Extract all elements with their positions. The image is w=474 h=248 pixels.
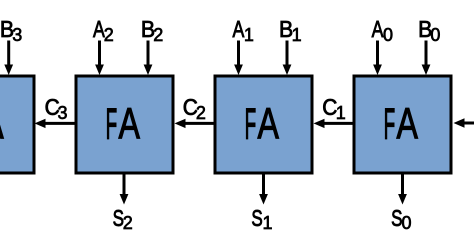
svg-text:A: A [372,17,384,43]
wire B0 input arrow [422,41,431,76]
wire B3 input arrow [4,41,13,76]
svg-text:2: 2 [123,213,133,233]
carry C2 label [183,94,206,123]
input A1 label [233,17,254,45]
svg-text:0: 0 [430,25,440,45]
svg-text:A: A [233,17,245,43]
svg-text:A: A [258,100,280,149]
wire A1 input arrow [234,41,243,76]
input A2 label [93,17,114,45]
svg-text:2: 2 [196,103,206,123]
input B2 label [141,16,163,45]
full adder FA2 [76,76,173,173]
FA2 label [106,100,141,149]
input B3 label [0,16,22,45]
svg-text:F: F [106,100,118,149]
wire A2 input arrow [95,41,104,76]
svg-text:S: S [251,207,262,232]
svg-text:F: F [384,100,396,149]
svg-text:A: A [397,100,419,149]
wire carry C3 arrow [35,119,75,128]
wire B2 input arrow [144,41,153,76]
full adder FA0 [354,76,451,173]
full adder FA3 (partial, left edge) [0,76,34,173]
FA1 label [245,100,280,149]
carry C1 label [322,94,346,123]
svg-text:1: 1 [263,213,273,233]
svg-text:2: 2 [153,25,163,45]
svg-text:A: A [0,100,4,149]
svg-text:A: A [119,100,141,149]
wire carry-in C0 arrow (right edge) [454,118,474,127]
wire B1 input arrow [283,41,292,76]
svg-text:1: 1 [292,25,302,45]
carry C3 label [45,94,68,123]
wire sum S2 output arrow [120,173,129,205]
FA0 label [384,100,419,149]
svg-text:1: 1 [244,25,254,45]
full adder FA1 [215,76,312,173]
output S0 label [391,207,411,233]
wire carry C2 arrow [175,119,214,128]
wire carry C1 arrow [314,119,353,128]
wire sum S1 output arrow [259,173,268,205]
svg-text:0: 0 [383,25,393,45]
output S2 label [113,207,133,233]
svg-text:F: F [245,100,257,149]
wire sum S0 output arrow [398,173,407,205]
svg-text:1: 1 [336,103,346,123]
svg-text:2: 2 [104,25,114,45]
input B0 label [418,16,440,45]
svg-text:3: 3 [58,103,68,123]
input A0 label [372,17,393,45]
svg-text:3: 3 [12,25,22,45]
svg-text:0: 0 [402,213,412,233]
output S1 label [251,207,272,233]
wire A0 input arrow [373,41,382,76]
input B1 label [279,16,302,45]
